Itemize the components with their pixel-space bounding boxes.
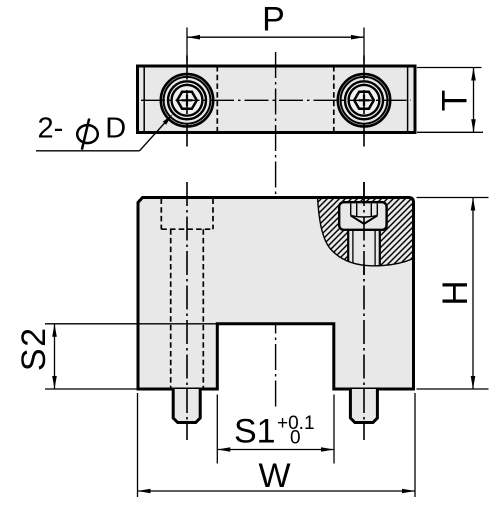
svg-text:T: T [436,90,475,111]
svg-text:S2: S2 [15,327,53,372]
svg-text:S1: S1 [234,413,276,451]
svg-text:D: D [105,113,126,145]
svg-text:2-: 2- [38,113,64,145]
svg-text:H: H [436,280,475,305]
svg-text:W: W [258,457,290,495]
svg-text:P: P [262,1,285,39]
svg-text:0: 0 [290,428,301,449]
